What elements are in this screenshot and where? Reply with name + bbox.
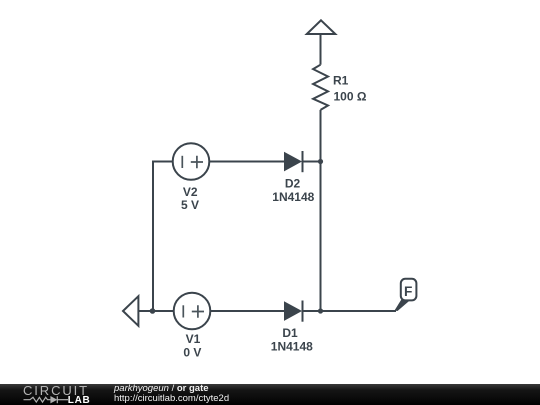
V1 plus sign	[192, 305, 204, 317]
credit text	[114, 384, 229, 403]
wire: V2 to D2 anode	[209, 161, 284, 163]
junction node: input port / left branch	[150, 308, 156, 314]
voltage source V1 (circle)	[174, 293, 211, 330]
flag F box	[401, 279, 417, 301]
voltage source V2 (circle)	[173, 143, 210, 180]
wire: port to V1	[138, 310, 173, 312]
svg-text:0 V: 0 V	[183, 345, 201, 359]
diode D2 cathode bar	[302, 151, 304, 172]
svg-text:100 Ω: 100 Ω	[334, 90, 367, 104]
diode D1 cathode bar	[302, 301, 304, 322]
svg-text:V2: V2	[183, 185, 198, 199]
flag F pointer tail	[395, 299, 411, 311]
svg-text:5 V: 5 V	[181, 198, 199, 212]
wire: R1 bottom to node at D1 (vertical bus)	[320, 110, 322, 311]
junction node: D1 cathode / bus	[318, 308, 323, 313]
diode D2 (filled arrow)	[284, 152, 302, 172]
svg-text:D1: D1	[282, 326, 298, 340]
svg-text:V1: V1	[186, 332, 201, 346]
svg-text:LAB: LAB	[68, 395, 91, 405]
svg-text:D2: D2	[285, 176, 301, 190]
resistor R1	[313, 65, 328, 110]
diode D1 (filled arrow)	[284, 301, 302, 321]
wire: D1 cathode to node	[303, 310, 321, 312]
V1 minus terminal bar	[182, 305, 184, 317]
footer bar	[0, 384, 540, 405]
wire: supply to R1	[320, 34, 322, 65]
svg-text:F: F	[404, 284, 412, 299]
input port symbol (left triangle)	[123, 296, 138, 326]
power supply symbol (up triangle)	[307, 20, 336, 34]
wire: left branch from V2 to corner	[153, 161, 173, 163]
svg-text:1N4148: 1N4148	[272, 190, 314, 204]
wire: left vertical from V2 level down to V1 level	[152, 161, 154, 312]
V2 minus terminal bar	[181, 156, 183, 168]
CircuitLab logo	[0, 384, 100, 405]
svg-text:1N4148: 1N4148	[271, 340, 313, 354]
wire: V1 to D1 anode	[210, 310, 284, 312]
V2 plus sign	[191, 156, 203, 168]
junction node: D2 cathode / bus	[318, 159, 323, 164]
svg-text:R1: R1	[333, 74, 349, 88]
wire: D2 cathode to vertical bus	[303, 161, 321, 163]
wire: node to output flag F	[321, 310, 397, 312]
